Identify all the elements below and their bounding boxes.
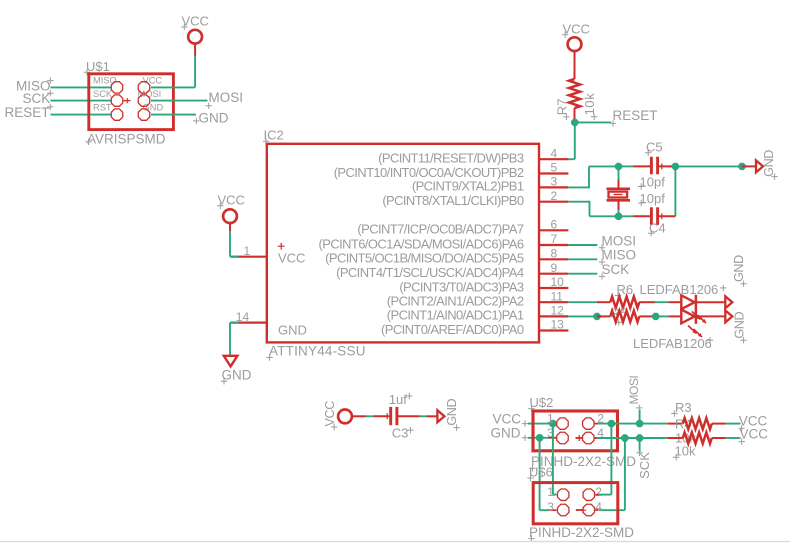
wire R6 to LED1 — [639, 301, 681, 303]
pin name GND (IC2) — [278, 323, 307, 338]
svg-text:4: 4 — [551, 146, 558, 160]
wire pad4 right (U$2) — [594, 437, 639, 439]
pin number 4 (U$2) — [597, 426, 604, 440]
label ATTINY44-SSU — [266, 344, 365, 361]
resistor R5 — [610, 311, 639, 322]
svg-text:6: 6 — [551, 218, 558, 232]
wire junction to LED2 — [656, 315, 682, 317]
label VCC (top-left) — [181, 14, 209, 31]
pin number 8 (IC2) — [551, 247, 558, 261]
svg-text:3: 3 — [551, 175, 558, 189]
label IC2 — [263, 128, 284, 145]
wire pin 2 to crystal bottom — [568, 201, 618, 217]
pin stub C5 right — [657, 163, 675, 169]
pin 12 stub (IC2 PA1) — [540, 315, 569, 317]
svg-text:VCC: VCC — [143, 75, 163, 85]
pin number 14 (IC2) — [236, 310, 250, 324]
pin 4 stub (IC2 PB3) — [540, 158, 569, 160]
label GND (IC2 pin14) — [221, 368, 252, 385]
wire pad2 right (U$2) — [594, 423, 639, 425]
svg-text:GND: GND — [732, 255, 746, 282]
label LEDFAB1206 (LED2) — [633, 336, 713, 351]
wire pin 8 to MISO label — [568, 258, 597, 260]
svg-text:GND: GND — [762, 150, 776, 177]
label C3 — [392, 425, 414, 440]
svg-text:SCK: SCK — [93, 89, 113, 99]
junction SCK branch node — [636, 434, 643, 441]
pad 3 (U$6) — [557, 504, 568, 515]
svg-text:ATTINY44-SSU: ATTINY44-SSU — [269, 344, 366, 359]
label PINHD-2X2-SMD (U$6) — [528, 525, 634, 542]
wire crystal bottom lead — [618, 200, 620, 216]
svg-text:GND: GND — [445, 399, 459, 426]
value 10pf (C4) — [638, 191, 665, 206]
vcc stub — [194, 44, 196, 56]
wire R7 to junction — [574, 108, 576, 120]
pin number 11 (IC2) — [551, 289, 564, 303]
led LED1 — [681, 295, 696, 310]
svg-text:10: 10 — [551, 275, 565, 289]
svg-text:1: 1 — [244, 244, 251, 258]
label VCC (IC2 pin1) — [217, 193, 245, 210]
ground GND symbol (LED2) — [725, 310, 732, 322]
pin number 3 (IC2) — [551, 175, 558, 189]
wire pad2 down to U$6 pad2 — [598, 424, 611, 495]
pin number 9 (IC2) — [551, 261, 558, 275]
pin name PB3 (IC2) — [378, 151, 524, 166]
value 10k (R3, hidden) — [675, 431, 696, 446]
net label GND (U$1 right) — [193, 111, 229, 126]
junction pad4 node — [621, 434, 628, 441]
label C4 — [648, 220, 666, 236]
svg-text:VCC: VCC — [323, 401, 337, 427]
pin number 2 (IC2) — [551, 189, 558, 203]
pin 6 stub (IC2 PA7) — [540, 229, 569, 231]
window border — [0, 541, 790, 543]
pin 2 stub (IC2 PB0) — [540, 201, 569, 203]
label R4 (hidden) — [675, 417, 692, 432]
svg-text:1: 1 — [547, 412, 554, 426]
pin name PB1 (IC2) — [412, 179, 524, 194]
svg-text:RESET: RESET — [613, 108, 658, 123]
label R3 — [671, 400, 691, 417]
pin name PA4 (IC2) — [336, 265, 524, 280]
pin name PA7 (IC2) — [357, 222, 523, 237]
capacitor C5 — [651, 157, 657, 175]
wire VCC to R7 — [574, 50, 576, 79]
capacitor C4 — [651, 207, 657, 225]
pin 9 stub (IC2 PA4) — [540, 273, 569, 275]
label U$6 — [527, 465, 553, 482]
svg-text:GND: GND — [491, 426, 521, 441]
label AVRISPSMD — [85, 132, 165, 147]
pin number 2 (U$2) — [597, 412, 604, 426]
pin stub C4 right — [657, 213, 675, 219]
pad RST (U$1) — [111, 109, 122, 120]
net label MISO (IC2) — [599, 248, 636, 266]
pad 2 (U$6) — [583, 489, 594, 500]
pin number 2 (U$6) — [595, 485, 602, 499]
svg-text:2: 2 — [595, 485, 602, 499]
svg-text:LEDFAB1206: LEDFAB1206 — [640, 282, 719, 297]
led LED2 — [681, 309, 696, 324]
pin label GND (U$1) — [143, 103, 164, 113]
wire node to R3 — [640, 423, 683, 425]
wire pad1 down to U$6 pad1 — [553, 424, 557, 495]
wire RESET to U$1 — [51, 114, 112, 116]
label R7 — [555, 99, 570, 121]
pin name PA6 (IC2) — [319, 236, 524, 251]
wire R5 to junction — [639, 315, 652, 317]
label PINHD-2X2-SMD (U$2) — [529, 454, 636, 472]
pad 4 (U$6) — [583, 504, 594, 515]
ground GND symbol (C3) — [437, 410, 444, 422]
net label MISO — [16, 77, 54, 93]
svg-text:AVRISPSMD: AVRISPSMD — [87, 132, 166, 147]
pin label VCC (U$1) — [143, 75, 163, 85]
svg-text:4: 4 — [595, 500, 602, 514]
svg-text:GND: GND — [143, 103, 164, 113]
pin name PA5 (IC2) — [325, 251, 524, 266]
svg-text:(PCINT5/OC1B/MISO/DO/ADC5)PA5: (PCINT5/OC1B/MISO/DO/ADC5)PA5 — [325, 251, 524, 266]
svg-text:U$1: U$1 — [86, 59, 110, 74]
svg-text:U$6: U$6 — [529, 465, 553, 480]
svg-text:LEDFAB1206: LEDFAB1206 — [633, 336, 712, 351]
svg-text:8: 8 — [551, 247, 558, 261]
pin number 5 (IC2) — [551, 161, 558, 175]
svg-text:7: 7 — [551, 232, 558, 246]
wire pin 9 to SCK label — [568, 273, 597, 275]
svg-text:(PCINT4/T1/SCL/USCK/ADC4)PA4: (PCINT4/T1/SCL/USCK/ADC4)PA4 — [336, 265, 524, 280]
wire U$1 MOSI pad to label — [151, 100, 208, 102]
svg-text:C3: C3 — [392, 425, 409, 440]
pin name PA3 (IC2) — [399, 279, 524, 294]
pin name PA1 (IC2) — [387, 308, 524, 323]
svg-text:GND: GND — [222, 368, 252, 383]
net label SCK (U$2) — [636, 450, 652, 479]
pad 4 (U$2) — [583, 432, 594, 443]
connector U$1 AVRISPSMD body — [89, 74, 174, 130]
pin number 4 (IC2) — [551, 146, 558, 160]
pin stub pad4 left (U$2) — [576, 435, 583, 441]
pin number 10 (IC2) — [551, 275, 565, 289]
svg-text:SCK: SCK — [23, 91, 51, 106]
pad 1 (U$6) — [557, 489, 568, 500]
pad 1 (U$2) — [557, 418, 568, 429]
led LED2 arrows — [688, 326, 702, 338]
ground GND symbol (crystal) — [756, 160, 763, 172]
pin 3 stub (IC2 PB1) — [540, 186, 569, 188]
junction GND node — [536, 434, 543, 441]
connector U$6 body — [533, 483, 618, 524]
pin 10 stub (IC2 PA3) — [540, 287, 569, 289]
svg-text:(PCINT7/ICP/OC0B/ADC7)PA7: (PCINT7/ICP/OC0B/ADC7)PA7 — [357, 222, 523, 237]
wire junction to R5 — [597, 315, 610, 317]
capacitor C3 — [391, 407, 397, 425]
pin label MOSI (U$1) — [138, 89, 162, 99]
pin label MISO (U$1) — [93, 75, 117, 85]
pin 8 stub (IC2 PA5) — [540, 258, 569, 260]
junction R5 right node — [652, 313, 659, 320]
wire pin 7 to MOSI label — [568, 244, 597, 246]
wire R4 to VCC — [712, 437, 741, 439]
wire LED1 to GND — [696, 301, 725, 303]
svg-text:GND: GND — [732, 312, 746, 339]
label C5 — [645, 140, 663, 157]
value 10k (R7) — [582, 93, 598, 120]
pin label SCK (U$1) — [93, 89, 113, 99]
wire C5 node down to C4 — [674, 166, 676, 216]
svg-text:(PCINT3/T0/ADC3)PA3: (PCINT3/T0/ADC3)PA3 — [399, 279, 524, 294]
label GND (LED1) — [732, 255, 747, 287]
wire U$1 GND pad to label — [151, 114, 196, 116]
pin number 7 (IC2) — [551, 232, 558, 246]
net label RESET — [5, 104, 54, 120]
pin stub pad2 right (U$6) — [595, 494, 598, 496]
value 1uf (C3) — [389, 392, 413, 407]
svg-text:(PCINT1/AIN0/ADC1)PA1: (PCINT1/AIN0/ADC1)PA1 — [387, 308, 524, 323]
net label SCK (IC2) — [599, 262, 629, 280]
junction RESET node — [571, 119, 578, 126]
svg-text:(PCINT11/RESET/DW)PB3: (PCINT11/RESET/DW)PB3 — [378, 151, 524, 166]
wire R3 to VCC — [712, 423, 741, 425]
wire GND down to U$6 pad3 — [540, 438, 557, 510]
label VCC (top) — [562, 21, 590, 38]
svg-text:VCC: VCC — [182, 14, 209, 29]
pad MISO (U$1) — [111, 82, 122, 93]
svg-text:U$2: U$2 — [530, 395, 554, 410]
wire pin 12 to R5 — [568, 315, 593, 317]
pin name PA0 (IC2) — [381, 322, 524, 337]
ground GND symbol (LED1) — [725, 296, 732, 308]
wire VCC to pin 1 — [230, 231, 239, 257]
label GND (crystal) — [762, 150, 778, 180]
wire C3 to GND — [397, 415, 437, 417]
led LED1 arrows — [692, 312, 706, 324]
label U$1 — [84, 59, 110, 76]
pin stub pad4 right (U$6) — [595, 509, 598, 511]
svg-text:VCC: VCC — [493, 411, 522, 426]
junction pad1 node — [549, 420, 556, 427]
wire junction to RESET label — [575, 121, 611, 123]
pin name VCC (IC2) — [278, 251, 305, 266]
pin name PB0 (IC2) — [382, 193, 524, 208]
pin 5 stub (IC2 PB2) — [540, 172, 569, 174]
svg-text:10pf: 10pf — [640, 174, 666, 189]
svg-text:9: 9 — [551, 261, 558, 275]
svg-text:GND: GND — [199, 111, 229, 126]
pad 3 (U$2) — [557, 432, 568, 443]
svg-text:1uf: 1uf — [389, 392, 407, 407]
svg-text:GND: GND — [278, 323, 307, 338]
wire node to R4 — [640, 437, 683, 439]
value 10pf (C5) — [638, 174, 665, 189]
svg-text:10k: 10k — [675, 443, 696, 458]
pin name PA2 (IC2) — [387, 294, 524, 309]
junction GND stub node — [738, 163, 745, 170]
svg-text:MOSI: MOSI — [602, 233, 637, 248]
label VCC (C3) — [323, 401, 337, 430]
wire U$1 VCC pad to VCC symbol — [151, 55, 195, 87]
pin 7 stub (IC2 PA6) — [540, 244, 569, 246]
svg-text:(PCINT0/AREF/ADC0)PA0: (PCINT0/AREF/ADC0)PA0 — [381, 322, 524, 337]
net label GND (U$2) — [491, 426, 529, 442]
pin number 1 (U$2) — [547, 412, 554, 426]
svg-text:R3: R3 — [675, 400, 692, 415]
gnd stub (crystal) — [742, 165, 756, 167]
pin stub SCK (U$1) — [123, 98, 130, 103]
junction R5 left node — [593, 313, 600, 320]
wire VCC to pad1 — [528, 423, 556, 425]
pad MOSI (U$1) — [138, 95, 149, 106]
pin number 3 (U$2) — [547, 426, 554, 440]
net label VCC (R4) — [739, 427, 769, 445]
wire SCK stub down — [639, 438, 641, 452]
label GND (C3) — [445, 399, 460, 431]
svg-text:(PCINT10/INT0/OC0A/CKOUT)PB2: (PCINT10/INT0/OC0A/CKOUT)PB2 — [334, 165, 524, 180]
connector U$2 body — [533, 411, 618, 451]
svg-text:MOSI: MOSI — [209, 90, 244, 105]
label R5 (hidden) — [611, 306, 628, 326]
vcc stub (pin1) — [229, 222, 231, 231]
pin 1 stub (IC2 VCC) — [231, 256, 267, 258]
svg-text:10k: 10k — [582, 93, 597, 116]
pin number 4 (U$6) — [595, 500, 602, 514]
svg-text:VCC: VCC — [278, 251, 305, 266]
label R6 — [615, 282, 633, 299]
svg-text:13: 13 — [551, 318, 565, 332]
pad GND (U$1) — [138, 109, 149, 120]
net label RESET (top) — [610, 108, 658, 127]
supply VCC symbol (C3) — [338, 410, 352, 424]
wire RESET node down to pin4 — [568, 122, 575, 159]
resistor R6 — [610, 297, 639, 308]
net label VCC (R3) — [739, 413, 768, 431]
svg-text:RESET: RESET — [5, 105, 50, 120]
wire MOSI stub up — [639, 410, 641, 424]
wire LED2 to GND — [696, 315, 725, 317]
svg-text:PINHD-2X2-SMD: PINHD-2X2-SMD — [529, 525, 634, 540]
junction crystal top node — [615, 163, 622, 170]
wire crystal top to C5 — [619, 165, 651, 167]
wire pin 11 to R6 — [568, 301, 610, 303]
pin number 12 (IC2) — [551, 304, 565, 318]
label U$2 — [528, 395, 553, 412]
value 10k (R4) — [673, 443, 696, 460]
svg-text:(PCINT8/XTAL1/CLKI)PB0: (PCINT8/XTAL1/CLKI)PB0 — [382, 193, 524, 208]
resistor R7 — [569, 79, 580, 108]
svg-text:5: 5 — [551, 161, 558, 175]
ground GND symbol (IC2 pin14) — [224, 356, 238, 367]
pad 2 (U$2) — [583, 418, 594, 429]
pin 11 stub (IC2 PA2) — [540, 301, 569, 303]
pin marker + (IC2 VCC) — [278, 243, 285, 250]
svg-text:R7: R7 — [555, 99, 570, 116]
crystal Q1 — [607, 189, 631, 201]
svg-text:SCK: SCK — [602, 262, 630, 277]
svg-text:VCC: VCC — [563, 21, 590, 36]
net label MOSI (U$2) — [627, 376, 643, 411]
wire pin 3 to crystal top — [568, 166, 618, 188]
pad SCK (U$1) — [111, 95, 122, 106]
net label VCC (U$2) — [493, 411, 529, 427]
pin label RST (U$1) — [93, 103, 112, 113]
resistor R4 — [683, 432, 712, 443]
junction C5 right node — [672, 163, 679, 170]
wire GND into box — [528, 437, 549, 439]
svg-text:RST: RST — [93, 103, 112, 113]
svg-text:11: 11 — [551, 289, 564, 303]
supply VCC symbol (top-left) — [188, 30, 202, 44]
svg-text:12: 12 — [551, 304, 565, 318]
svg-text:10pf: 10pf — [640, 191, 666, 206]
wire pin 14 to GND — [230, 323, 239, 356]
pin name PB2 (IC2) — [334, 165, 524, 180]
supply VCC symbol (top) — [568, 37, 582, 51]
pin number 1 (IC2) — [244, 244, 251, 258]
wire crystal bottom to C4 — [619, 215, 651, 217]
svg-text:1: 1 — [547, 485, 554, 499]
svg-text:MISO: MISO — [602, 248, 637, 263]
pin number 6 (IC2) — [551, 218, 558, 232]
svg-text:IC2: IC2 — [264, 128, 284, 143]
wire SCK to U$1 — [51, 100, 112, 102]
svg-text:(PCINT2/AIN1/ADC2)PA2: (PCINT2/AIN1/ADC2)PA2 — [387, 294, 524, 309]
pin number 13 (IC2) — [551, 318, 565, 332]
wire MISO to U$1 — [51, 86, 112, 88]
net label MOSI (IC2) — [599, 233, 636, 251]
ic U1 ATTINY44-SSU body — [267, 144, 539, 343]
wire pad4 down to U$6 pad4 — [599, 438, 625, 510]
svg-text:VCC: VCC — [218, 193, 245, 208]
wire crystal top lead — [618, 166, 620, 188]
pin 14 stub (IC2 GND) — [231, 322, 267, 324]
svg-text:2: 2 — [551, 189, 558, 203]
net label SCK — [23, 90, 54, 106]
wire C5 to GND — [675, 165, 742, 167]
pin stub pad3 (U$2) — [549, 437, 557, 439]
svg-text:(PCINT6/OC1A/SDA/MOSI/ADC6)PA6: (PCINT6/OC1A/SDA/MOSI/ADC6)PA6 — [319, 236, 524, 251]
svg-text:MOSI: MOSI — [627, 376, 641, 405]
pin number 3 (U$6) — [547, 500, 554, 514]
pin 13 stub (IC2 PA0) — [540, 329, 569, 331]
junction pad2 node — [608, 420, 615, 427]
pin number 1 (U$6) — [547, 485, 554, 499]
svg-text:(PCINT9/XTAL2)PB1: (PCINT9/XTAL2)PB1 — [412, 179, 524, 194]
label GND (LED2) — [732, 312, 746, 344]
resistor R3 — [683, 418, 712, 429]
junction MOSI branch node — [636, 420, 643, 427]
net label MOSI (U$1 right) — [206, 90, 244, 109]
svg-text:3: 3 — [547, 500, 554, 514]
junction crystal bottom node — [615, 213, 622, 220]
svg-text:VCC: VCC — [740, 427, 769, 442]
supply VCC symbol (IC2 pin1) — [223, 209, 237, 223]
pad VCC (U$1) — [138, 82, 149, 93]
label LEDFAB1206 (LED1) — [640, 282, 727, 297]
pin stub pad4 left (U$6) — [576, 507, 586, 513]
wire VCC to C3 — [352, 413, 390, 419]
